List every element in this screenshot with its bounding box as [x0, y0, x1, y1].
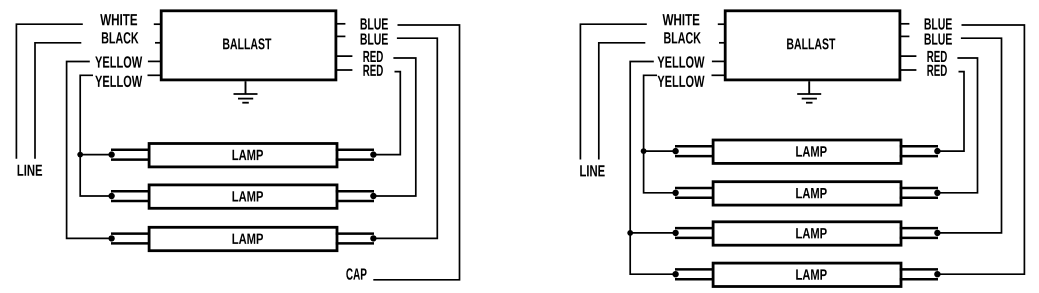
label RED 2 (right) — [927, 65, 947, 76]
ballast label (right) — [787, 38, 835, 49]
wire RED 2 to lamp 1 right — [373, 72, 400, 155]
wire BLUE 1 to lamp 4 right — [937, 25, 1024, 274]
lamp label — [233, 150, 264, 160]
lamp 1 (right diagram) — [672, 140, 940, 163]
junction node yellow 2 / lamp 1 — [77, 152, 83, 158]
lamp right pin node — [934, 148, 940, 154]
wire WHITE stub (right) — [718, 23, 725, 25]
lamp body — [149, 144, 337, 167]
lamp 4 (right diagram) — [672, 263, 940, 286]
lamp right bi-pin base — [900, 228, 938, 238]
lamp left bi-pin base — [675, 269, 715, 279]
label BLUE 1 (right) — [925, 18, 952, 29]
lamp right pin node — [934, 271, 940, 277]
ballast label — [223, 38, 271, 49]
wire BLUE 1 stub (right) — [900, 23, 909, 25]
ground (right) — [797, 81, 821, 102]
label BLACK — [102, 32, 139, 44]
label BLUE 2 — [361, 34, 388, 45]
label LINE — [18, 165, 42, 176]
lamp left bi-pin base — [111, 191, 151, 201]
label WHITE — [100, 14, 137, 25]
label BLUE 1 — [361, 18, 388, 29]
lamp label — [233, 191, 264, 201]
lamp label — [796, 269, 827, 279]
label RED 1 — [363, 51, 383, 62]
wire RED 2 stub (right) — [900, 69, 916, 71]
lamp label — [796, 228, 827, 238]
lamp left pin node — [108, 193, 114, 199]
lamp label — [796, 188, 827, 198]
wire YELLOW 2 stub (right) — [712, 74, 725, 76]
lamp right pin node — [370, 193, 376, 199]
junction node yellow 1 / lamp 3 (right) — [627, 230, 633, 236]
lamp left pin node — [672, 271, 678, 277]
wire YELLOW 2 stub to ballast — [148, 74, 161, 76]
lamp body — [149, 227, 337, 250]
wire RED 2 stub — [336, 69, 352, 71]
wire RED 1 to lamp 2 right (right) — [937, 58, 977, 193]
lamp left pin node — [672, 230, 678, 236]
lamp 2 (left diagram) — [108, 185, 376, 208]
wire BLACK stub (right) — [719, 42, 725, 44]
lamp right pin node — [934, 190, 940, 196]
lamp right pin node — [934, 230, 940, 236]
lamp right bi-pin base — [336, 150, 374, 160]
label BLACK (right) — [664, 32, 701, 44]
lamp left pin node — [672, 190, 678, 196]
wire BLUE 2 stub (right) — [900, 35, 909, 37]
lamp body — [713, 222, 901, 245]
lamp right bi-pin base — [900, 146, 938, 156]
lamp left bi-pin base — [675, 146, 715, 156]
lamp right bi-pin base — [900, 188, 938, 198]
lamp label — [233, 234, 264, 244]
wire RED 1 stub — [336, 55, 352, 57]
lamp 2 (right diagram) — [672, 182, 940, 205]
label RED 2 — [363, 65, 383, 76]
label YELLOW 2 — [95, 76, 142, 88]
lamp left bi-pin base — [675, 188, 715, 198]
lamp right bi-pin base — [900, 269, 938, 279]
lamp right bi-pin base — [336, 191, 374, 201]
label BLUE 2 (right) — [925, 34, 952, 45]
wire WHITE to line (right) — [580, 24, 646, 159]
wire BLUE 1 stub — [336, 23, 345, 25]
wire BLACK to line (right) — [599, 43, 646, 160]
wire YELLOW 1 stub to ballast — [148, 60, 161, 62]
lamp left bi-pin base — [111, 234, 151, 244]
wire BLUE 1 to CAP — [373, 25, 459, 280]
lamp right bi-pin base — [336, 234, 374, 244]
wire RED 1 stub (right) — [900, 55, 916, 57]
lamp left pin node — [672, 148, 678, 154]
wire BLACK to line — [35, 43, 81, 159]
label YELLOW 1 (right) — [658, 56, 705, 68]
wire BLUE 2 to lamp 3 right (right) — [937, 38, 1001, 233]
wire YELLOW 2 to lamps 1 and 2 — [80, 75, 111, 196]
wire RED 1 to lamp 2 right — [373, 58, 416, 196]
lamp right pin node — [370, 235, 376, 241]
label YELLOW 2 (right) — [658, 76, 705, 88]
ballast (right diagram) — [725, 11, 900, 80]
lamp body — [713, 182, 901, 205]
lamp label — [796, 146, 827, 156]
label RED 1 (right) — [927, 51, 947, 62]
lamp body — [713, 140, 901, 163]
lamp body — [713, 263, 901, 286]
wire YELLOW 1 to lamps 3 and 4 (right) — [630, 62, 675, 275]
wire BLUE 2 to lamp 3 right — [373, 38, 437, 238]
lamp left bi-pin base — [111, 150, 151, 160]
ground — [234, 81, 258, 102]
wire YELLOW 1 to lamp 3 — [67, 62, 112, 239]
wire RED 2 to lamp 1 right (right) — [937, 72, 964, 152]
lamp 1 (left diagram) — [108, 144, 376, 167]
ballast (left diagram) — [161, 11, 336, 80]
lamp left pin node — [108, 235, 114, 241]
wire YELLOW 2 to lamps 1 and 2 (right) — [644, 75, 676, 193]
lamp 3 (right diagram) — [672, 222, 940, 245]
wire WHITE to line — [16, 24, 82, 159]
lamp body — [149, 185, 337, 208]
wire BLUE 2 stub — [336, 35, 345, 37]
lamp 3 (left diagram) — [108, 227, 376, 250]
lamp right pin node — [370, 151, 376, 157]
label WHITE (right) — [663, 14, 700, 25]
wire BLACK stub to ballast — [155, 42, 161, 44]
label CAP — [346, 268, 366, 280]
lamp left pin node — [108, 151, 114, 157]
label YELLOW 1 — [95, 56, 142, 68]
wire WHITE stub to ballast — [154, 23, 161, 25]
label LINE (right) — [580, 165, 605, 176]
lamp left bi-pin base — [675, 228, 715, 238]
junction node yellow 2 / lamp 1 (right) — [641, 148, 647, 154]
wire YELLOW 1 stub (right) — [712, 60, 725, 62]
